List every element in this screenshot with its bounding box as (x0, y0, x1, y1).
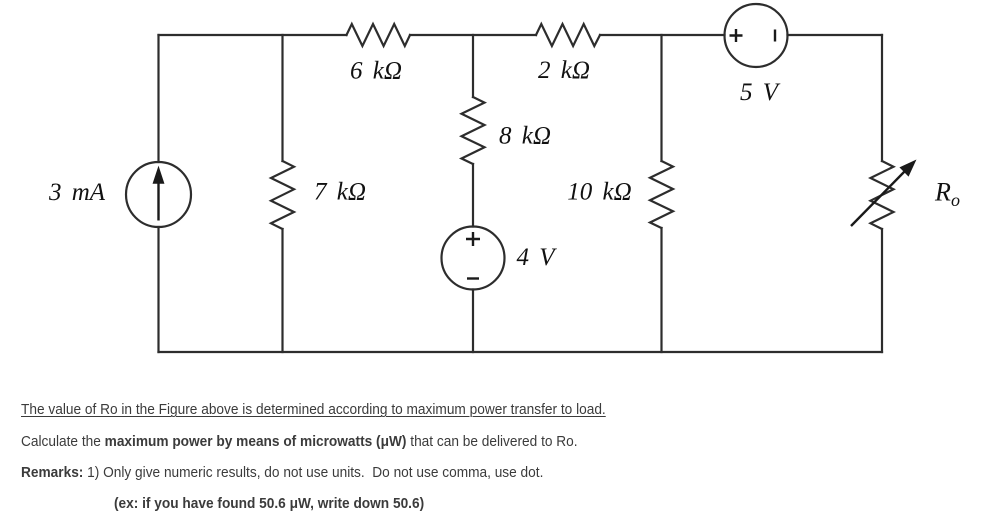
svg-text:7 kΩ: 7 kΩ (314, 179, 366, 206)
svg-text:3 mA: 3 mA (48, 179, 106, 206)
svg-text:8 kΩ: 8 kΩ (499, 123, 551, 150)
svg-text:2 kΩ: 2 kΩ (538, 57, 590, 84)
svg-text:10 kΩ: 10 kΩ (567, 179, 631, 206)
svg-text:5 V: 5 V (740, 79, 781, 106)
svg-text:6 kΩ: 6 kΩ (350, 58, 402, 85)
svg-text:4 V: 4 V (516, 244, 557, 271)
svg-text:Ro: Ro (934, 178, 960, 211)
